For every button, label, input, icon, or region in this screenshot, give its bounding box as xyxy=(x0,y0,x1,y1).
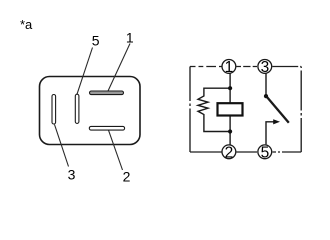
svg-text:5: 5 xyxy=(92,32,100,48)
svg-text:2: 2 xyxy=(123,169,131,185)
svg-text:1: 1 xyxy=(225,59,234,76)
svg-text:3: 3 xyxy=(261,59,270,76)
svg-text:*a: *a xyxy=(20,17,33,32)
svg-text:1: 1 xyxy=(126,30,134,46)
svg-text:3: 3 xyxy=(68,166,76,182)
svg-text:5: 5 xyxy=(261,144,270,161)
svg-text:2: 2 xyxy=(225,144,234,161)
